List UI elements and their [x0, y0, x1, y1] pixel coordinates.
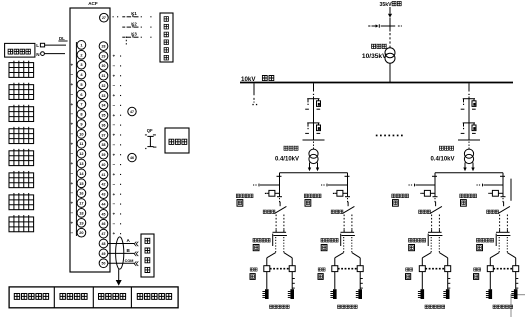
svg-text:39: 39: [102, 153, 106, 157]
svg-text:−: −: [70, 151, 73, 156]
svg-text:42: 42: [102, 183, 106, 187]
svg-text:DL: DL: [59, 36, 65, 41]
svg-text:38: 38: [102, 143, 106, 147]
svg-text:48: 48: [102, 242, 106, 246]
svg-text:45: 45: [102, 212, 106, 216]
svg-text:+: +: [70, 141, 73, 146]
svg-text:34: 34: [102, 104, 106, 108]
svg-text:27: 27: [102, 16, 106, 20]
svg-text:31: 31: [102, 74, 106, 78]
svg-text:43: 43: [102, 193, 106, 197]
svg-text:40: 40: [102, 163, 106, 167]
svg-text:−: −: [112, 63, 115, 68]
svg-text:COM: COM: [125, 259, 134, 263]
svg-text:+: +: [70, 181, 73, 186]
svg-text:+: +: [112, 93, 115, 98]
svg-text:+: +: [70, 62, 73, 67]
svg-text:−: −: [112, 162, 115, 167]
svg-text:41: 41: [102, 173, 106, 177]
svg-text:+: +: [112, 152, 115, 157]
svg-text:−: −: [112, 103, 115, 108]
svg-text:37: 37: [102, 133, 106, 137]
svg-text:46: 46: [102, 222, 106, 226]
svg-text:0.4/10kV: 0.4/10kV: [430, 157, 454, 163]
svg-text:+: +: [112, 211, 115, 216]
svg-text:+: +: [70, 161, 73, 166]
svg-text:−: −: [70, 112, 73, 117]
svg-text:33: 33: [102, 94, 106, 98]
svg-text:−: −: [112, 182, 115, 187]
svg-text:−: −: [70, 171, 73, 176]
svg-text:10kV: 10kV: [241, 76, 256, 83]
svg-text:47: 47: [102, 232, 106, 236]
svg-text:−: −: [70, 230, 73, 235]
svg-text:7: 7: [80, 102, 82, 107]
svg-text:10/35kV: 10/35kV: [362, 53, 387, 60]
svg-text:20: 20: [79, 230, 83, 235]
svg-text:−: −: [70, 72, 73, 77]
svg-text:49: 49: [102, 252, 106, 256]
svg-text:+: +: [70, 102, 73, 107]
svg-text:−: −: [112, 123, 115, 128]
svg-text:17: 17: [79, 201, 83, 206]
svg-text:+: +: [112, 73, 115, 78]
svg-text:+: +: [112, 172, 115, 177]
svg-text:−: −: [70, 191, 73, 196]
svg-text:46: 46: [130, 156, 134, 160]
svg-text:QF: QF: [147, 128, 153, 133]
svg-text:10: 10: [79, 131, 83, 136]
svg-text:+: +: [112, 113, 115, 118]
svg-text:ACF: ACF: [88, 1, 98, 6]
svg-text:36: 36: [102, 123, 106, 127]
svg-text:+: +: [70, 201, 73, 206]
svg-text:+: +: [112, 231, 115, 236]
svg-text:K2: K2: [131, 21, 137, 26]
svg-text:−: −: [70, 211, 73, 216]
svg-text:−: −: [112, 221, 115, 226]
svg-text:−: −: [112, 83, 115, 88]
svg-text:−: −: [112, 142, 115, 147]
svg-text:−: −: [70, 92, 73, 97]
svg-text:+: +: [112, 54, 115, 59]
svg-text:K1: K1: [131, 11, 137, 16]
svg-text:+: +: [70, 82, 73, 87]
svg-text:L: L: [36, 43, 39, 48]
svg-text:28: 28: [102, 45, 106, 49]
svg-text:−: −: [70, 131, 73, 136]
svg-text:44: 44: [102, 202, 106, 206]
svg-text:29: 29: [102, 54, 106, 58]
svg-text:32: 32: [102, 84, 106, 88]
svg-text:K3: K3: [131, 32, 137, 37]
svg-text:+: +: [70, 122, 73, 127]
svg-text:30: 30: [102, 64, 106, 68]
svg-text:50: 50: [102, 262, 106, 266]
svg-text:+: +: [112, 133, 115, 138]
svg-text:−: −: [112, 202, 115, 207]
svg-text:+: +: [112, 192, 115, 197]
svg-text:35: 35: [102, 114, 106, 118]
svg-text:0.4/10kV: 0.4/10kV: [275, 157, 299, 163]
svg-text:+: +: [70, 220, 73, 225]
svg-text:47: 47: [130, 110, 134, 114]
